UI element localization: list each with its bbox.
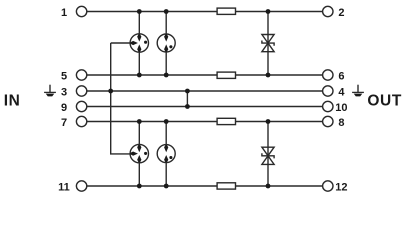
pin number 5 [61,70,67,82]
junction row7 / lower-left GDT [137,119,142,124]
wire 11-12 bottom line [87,185,323,187]
pin number 3 [61,86,67,98]
svg-text:6: 6 [338,70,344,82]
terminal 9 [76,101,86,111]
terminal 11 [76,181,86,191]
wire 9-10 line [87,106,323,108]
pin number 11 [58,181,70,193]
terminal 4 [323,86,333,96]
junction row1 / upper TVS [266,9,271,14]
junction row3 / link [185,89,190,94]
pin number 10 [335,102,347,114]
terminal 12 [323,181,333,191]
wire upper TVS vertical (row1 to row6) [267,12,269,76]
junction row7 / lower-right GDT [164,119,169,124]
terminal 6 [323,70,333,80]
pin number 8 [338,117,344,129]
gas discharge tube upper-right (2-electrode) [157,34,175,52]
pin number 2 [338,7,344,19]
svg-text:OUT: OUT [367,93,402,110]
gas discharge tube upper-left (3-electrode) [130,34,148,52]
wire 1-2 top line [87,11,323,13]
wire upper-left GDT vertical (row1 to row5) [138,12,140,76]
resistor (line 5-6) [217,72,235,78]
wire link row3 to row9 [186,91,188,107]
terminal 1 [76,6,86,16]
ground symbol IN side [44,85,56,97]
junction row5 / upper-right GDT [164,73,169,78]
junction row5 / upper-left GDT [137,73,142,78]
junction row1 / upper-right GDT [164,9,169,14]
svg-text:1: 1 [61,7,67,19]
wire lower-right GDT vertical (row7 to row11) [165,122,167,187]
wire upper-right GDT vertical (row1 to row5) [165,12,167,76]
junction row12 / lower TVS [266,184,271,189]
wire upper GDT ground stub [111,42,131,44]
svg-text:5: 5 [61,70,67,82]
svg-text:7: 7 [61,117,67,129]
junction row8 / lower TVS [266,119,271,124]
wire 7-8 line [87,121,323,123]
junction row11 / lower-right GDT [164,184,169,189]
terminal 8 [323,116,333,126]
pin number 1 [61,7,67,19]
svg-text:12: 12 [335,181,347,193]
label OUT [367,93,402,110]
pin number 4 [338,86,345,98]
junction row11 / lower-left GDT [137,184,142,189]
svg-text:10: 10 [335,102,347,114]
gas discharge tube lower-left (3-electrode) [130,144,148,162]
svg-text:8: 8 [338,117,344,129]
svg-text:3: 3 [61,86,67,98]
TVS suppressor diode upper (bidirectional) [262,35,274,52]
junction row6 / upper TVS [266,73,271,78]
ground symbol OUT side [352,85,364,97]
pin number 7 [61,117,67,129]
svg-text:IN: IN [4,93,21,110]
terminal 2 [323,6,333,16]
pin number 6 [338,70,344,82]
resistor (line 7-8) [217,118,235,124]
pin number 9 [61,102,67,114]
terminal 5 [76,70,86,80]
resistor (line 1-2) [217,8,235,14]
resistor (line 11-12) [217,183,235,189]
terminal 3 [76,86,86,96]
label IN [4,93,21,110]
pin number 12 [335,181,347,193]
terminal 10 [323,101,333,111]
wire ground bus vertical x=110.7 [110,43,112,154]
wire 3-4 ground line [87,90,323,92]
wire lower-left GDT vertical (row7 to row11) [138,122,140,187]
svg-text:11: 11 [58,181,70,193]
junction row1 / upper-left GDT [137,9,142,14]
svg-text:4: 4 [338,86,345,98]
junction row9 / link [185,104,190,109]
wire lower GDT ground stub [110,153,131,155]
junction row3 / ground bus [108,89,113,94]
wire lower TVS vertical (row8 to row12) [267,122,269,187]
gas discharge tube lower-right (2-electrode) [157,145,175,163]
terminal 7 [76,116,86,126]
svg-text:2: 2 [338,7,344,19]
wire 5-6 line [87,74,323,76]
TVS suppressor diode lower (bidirectional) [262,147,274,164]
svg-text:9: 9 [61,102,67,114]
